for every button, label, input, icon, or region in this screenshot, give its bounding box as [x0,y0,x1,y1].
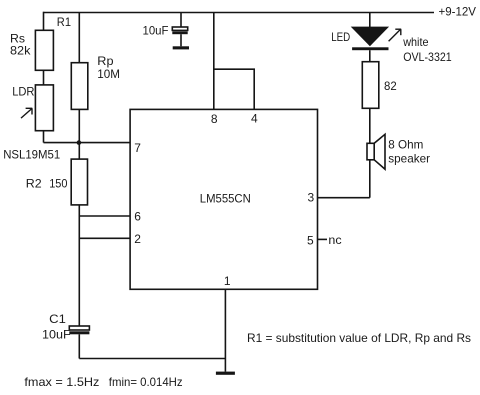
wire Rp bottom to node [78,109,80,142]
svg-text:8 Ohm: 8 Ohm [388,137,423,151]
capacitor C1 top plate [69,326,89,330]
wire R2 bottom to C1 [78,205,80,326]
svg-text:R2: R2 [26,177,42,191]
resistor Rs [35,30,53,70]
svg-text:8: 8 [211,112,218,126]
svg-text:R1 = substitution value of LDR: R1 = substitution value of LDR, Rp and R… [247,331,471,345]
svg-text:+9-12V: +9-12V [439,5,477,19]
svg-text:82k: 82k [10,44,31,58]
resistor Rp [71,63,88,110]
LED arrow [389,29,402,41]
capacitor 10uF top plate [172,27,187,30]
wire pin 2 horizontal [79,237,130,239]
wire LED to 82 resistor [369,50,371,62]
ground bottom [216,372,235,375]
wire rail to pin 8 [213,13,215,110]
svg-text:82: 82 [384,79,397,93]
wire C1 bottom [78,334,80,358]
wire pin 7 horizontal [44,142,131,144]
speaker driver box [367,143,374,160]
svg-text:7: 7 [134,141,141,155]
svg-text:white: white [402,35,428,49]
wire Rs to LDR [43,70,45,85]
resistor LDR [35,85,53,131]
svg-text:LM555CN: LM555CN [200,192,251,206]
svg-text:speaker: speaker [388,151,430,165]
svg-text:Rp: Rp [97,54,114,68]
speaker cone [374,134,385,169]
wire 82 to speaker [369,108,371,143]
wire rail to Rs top [43,12,45,31]
svg-text:LDR: LDR [12,84,35,98]
LDR arrow [21,108,32,118]
wire rail to 10uF cap [180,13,182,28]
node A junction dot [77,140,82,145]
wire rail to LED [369,13,371,28]
svg-text:10uF: 10uF [143,23,169,37]
svg-text:10uF: 10uF [42,327,71,341]
wire 10uF to ground [180,34,182,46]
wire pin 1 vertical [224,289,226,371]
svg-text:fmin= 0.014Hz: fmin= 0.014Hz [109,375,183,389]
svg-text:fmax = 1.5Hz: fmax = 1.5Hz [24,375,99,389]
wire rail to Rp top [78,13,80,63]
svg-text:5: 5 [307,234,314,248]
wire pin 4 staple [214,69,254,109]
wire node to R2 top [78,143,80,160]
LED triangle [351,27,389,47]
svg-text:R1: R1 [57,15,71,29]
capacitor 10uF bottom plate [172,31,187,34]
wire top supply rail [44,12,435,14]
svg-text:nc: nc [328,233,341,247]
svg-text:OVL-3321: OVL-3321 [403,50,452,64]
svg-text:3: 3 [308,190,315,204]
wire speaker to pin 3 [369,160,371,198]
wire pin 3 horizontal [318,197,370,199]
wire pin 6 horizontal [79,215,130,217]
wire LDR bottom [43,131,45,143]
svg-text:2: 2 [134,232,141,246]
svg-text:NSL19M51: NSL19M51 [3,148,60,162]
svg-text:LED: LED [331,30,350,44]
wire bottom horizontal to ground [79,358,225,360]
svg-text:C1: C1 [49,312,66,326]
wire pin 5 stub [318,238,328,240]
LED cathode bar [352,47,388,50]
svg-text:6: 6 [134,210,141,224]
op-amp U1 LM555CN body [130,109,317,289]
capacitor C1 bottom plate [69,331,89,334]
svg-text:150: 150 [49,177,68,191]
resistor R2 [71,159,87,205]
resistor 82 [362,62,379,109]
svg-text:10M: 10M [97,67,120,81]
svg-text:1: 1 [224,274,231,288]
ground top [173,46,189,49]
svg-text:4: 4 [251,112,258,126]
